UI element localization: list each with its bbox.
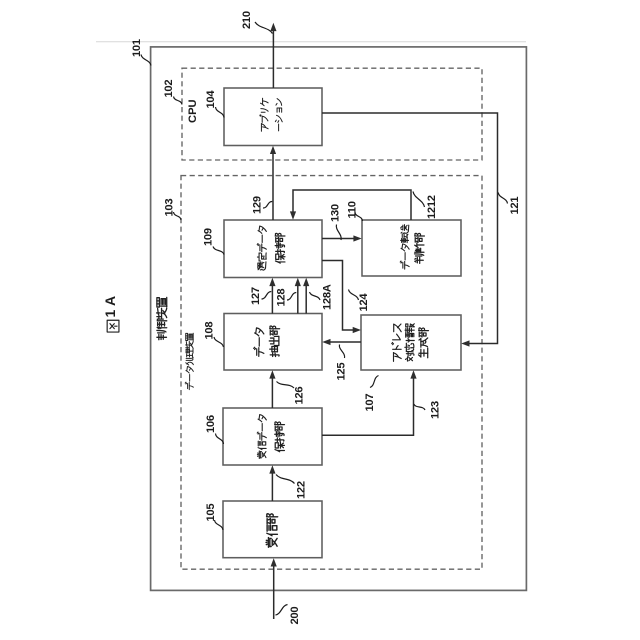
leader squiggle 122 [276, 475, 295, 484]
box 106 受信データ保持部 [223, 408, 322, 465]
box 105 text 受信部 [266, 514, 278, 548]
box 108 text line1 データ [254, 328, 264, 357]
arrowhead 130 right [353, 235, 361, 241]
svg-text:104: 104 [205, 90, 217, 109]
svg-text:105: 105 [205, 504, 217, 522]
outer box 101 制御装置 [151, 47, 527, 591]
leader squiggle 109 [213, 247, 224, 255]
box 110 text line2 判断部 [415, 233, 425, 263]
svg-text:121: 121 [509, 197, 521, 215]
svg-text:101: 101 [131, 39, 143, 57]
svg-text:128A: 128A [321, 284, 333, 310]
leader squiggle 130 [336, 225, 341, 241]
leader squiggle 128 [287, 293, 296, 301]
wire 1212 box110->box109 [293, 190, 411, 220]
arrowhead 1212 down [290, 211, 296, 219]
arrowhead 129 up [270, 146, 276, 154]
box 107 アドレス対応情報生成部 [361, 315, 461, 370]
leader squiggle 104 [216, 107, 225, 118]
leader squiggle 129 [263, 201, 272, 208]
leader squiggle 124 [349, 290, 359, 301]
arrowhead 210 up [270, 23, 276, 31]
leader squiggle 1212 [413, 192, 425, 208]
arrowhead 128A up [303, 278, 309, 286]
svg-text:123: 123 [429, 401, 441, 419]
svg-text:102: 102 [163, 80, 175, 98]
label データ処理装置 (data processing device) [185, 333, 193, 389]
wire 125 box107->box108 [326, 341, 362, 343]
leader squiggle 128A [310, 292, 321, 300]
leader squiggle 110 [355, 212, 363, 221]
box 108 text line2 抽出部 [269, 326, 279, 357]
leader squiggle 103 [174, 212, 182, 220]
wire 122 box105->box106 [271, 469, 273, 502]
leader squiggle 123 [414, 404, 425, 410]
faint horizontal scan line [96, 41, 526, 43]
wire 128A box108->box109 [305, 281, 307, 314]
box 108 データ抽出部 [224, 314, 322, 371]
svg-text:1 A: 1 A [102, 296, 118, 318]
arrowhead 125 left [322, 339, 330, 345]
leader squiggle 108 [214, 337, 224, 347]
svg-text:108: 108 [203, 322, 215, 340]
arrowhead 121 left [461, 340, 469, 346]
wire 210 from box104 to top [272, 27, 274, 89]
leader squiggle 200 [276, 605, 288, 616]
wire 128 box108->box109 [297, 281, 299, 314]
figure title 図1A - kanji 図 [107, 320, 119, 332]
arrowhead 128 up [295, 278, 301, 286]
wire 127 box108->box109 [271, 281, 273, 314]
box 110 text line1 データ転送 [400, 225, 409, 269]
leader squiggle 105 [215, 520, 224, 530]
box 110 データ転送判断部 [362, 220, 461, 276]
wire 129 box109->box104 [272, 149, 274, 220]
svg-text:107: 107 [364, 394, 376, 412]
box 104 text line2 ーション [275, 99, 282, 131]
box 107 text line1 アドレス [392, 324, 401, 361]
leader squiggle 127 [262, 292, 272, 300]
leader squiggle 125 [339, 345, 344, 359]
arrowhead 122 up [269, 465, 275, 473]
leader squiggle 126 [277, 382, 295, 389]
box 106 text line2 保持部 [275, 422, 285, 452]
box 104 text line1 アプリケ [260, 98, 268, 131]
svg-text:129: 129 [251, 196, 263, 214]
svg-text:110: 110 [346, 201, 358, 218]
svg-text:106: 106 [205, 415, 217, 433]
box 109 選定データ保持部 [224, 220, 322, 278]
leader squiggle 102 [174, 97, 183, 105]
label 制御装置 (control device) [157, 297, 167, 339]
svg-text:125: 125 [335, 363, 347, 381]
wire 124 box109->box107 [322, 261, 358, 331]
leader squiggle 121 [498, 193, 507, 204]
arrowhead 126 up [269, 370, 275, 378]
svg-text:200: 200 [289, 607, 301, 625]
svg-text:124: 124 [358, 293, 370, 312]
arrowhead 200 up [271, 558, 277, 566]
dashed box 103 データ処理装置 [181, 176, 482, 570]
arrowhead 127 up [269, 278, 275, 286]
svg-text:109: 109 [202, 228, 214, 246]
svg-text:128: 128 [275, 289, 287, 307]
box 104 アプリケーション [224, 88, 322, 146]
wire 130 box109->box110 [322, 238, 359, 240]
svg-text:210: 210 [241, 11, 253, 29]
wire 121 box104->box107 [322, 113, 498, 344]
svg-text:127: 127 [250, 287, 262, 305]
box 107 text line3 生成部 [419, 328, 429, 358]
leader squiggle 210 [255, 22, 273, 34]
wire 126 box106->box108 [271, 374, 273, 409]
svg-text:122: 122 [295, 481, 307, 499]
box 106 text line1 受信データ [257, 415, 266, 459]
wire 123 box106->box107 [322, 374, 414, 436]
arrowhead 124 right [353, 327, 361, 333]
svg-text:CPU: CPU [187, 99, 199, 123]
box 107 text line2 対応情報 [405, 324, 414, 361]
dashed box 102 CPU [182, 68, 482, 160]
svg-text:130: 130 [329, 204, 341, 222]
leader squiggle 106 [216, 434, 224, 445]
box 109 text line2 保持部 [275, 233, 285, 263]
svg-text:126: 126 [293, 387, 305, 405]
leader squiggle 107 [370, 376, 379, 388]
box 105 受信部 [223, 501, 322, 558]
wire 200 input to box105 [273, 562, 275, 620]
leader squiggle 101 [141, 55, 151, 66]
box 109 text line1 選定データ [257, 226, 266, 270]
svg-text:1212: 1212 [426, 195, 438, 219]
arrowhead 123 up [410, 370, 416, 378]
